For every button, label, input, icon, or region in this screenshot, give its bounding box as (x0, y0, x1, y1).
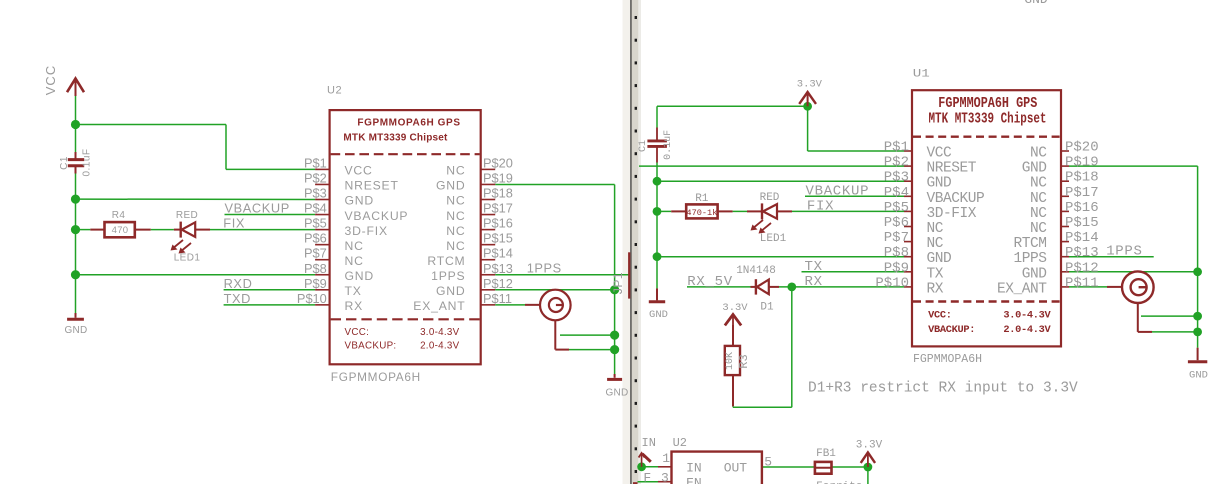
svg-text:LED1: LED1 (174, 253, 201, 264)
svg-text:P$10: P$10 (297, 291, 327, 306)
svg-text:MTK MT3339 Chipset: MTK MT3339 Chipset (343, 132, 448, 143)
svg-text:P$8: P$8 (884, 245, 909, 261)
svg-text:P$9: P$9 (304, 276, 327, 291)
svg-text:FB1: FB1 (816, 448, 836, 460)
svg-text:5: 5 (764, 454, 772, 469)
svg-text:P$9: P$9 (884, 260, 909, 276)
svg-text:GND: GND (345, 194, 374, 208)
svg-text:FGPMMOPA6H GPS: FGPMMOPA6H GPS (357, 117, 460, 128)
svg-text:0.1uF: 0.1uF (82, 148, 93, 176)
svg-text:NC: NC (927, 221, 944, 237)
svg-text:P$6: P$6 (884, 215, 909, 231)
svg-text:TX: TX (927, 266, 944, 282)
svg-text:P$14: P$14 (1065, 230, 1099, 246)
svg-text:3: 3 (661, 470, 669, 484)
svg-text:P$15: P$15 (483, 231, 513, 246)
svg-text:P$20: P$20 (1065, 140, 1099, 156)
svg-text:GND: GND (436, 284, 465, 298)
svg-text:VCC:: VCC: (345, 327, 370, 338)
svg-text:1PPS: 1PPS (527, 261, 562, 276)
svg-text:EX_ANT: EX_ANT (413, 299, 465, 313)
svg-text:GND: GND (927, 251, 952, 267)
svg-text:NC: NC (345, 254, 364, 268)
svg-text:P$16: P$16 (483, 216, 513, 231)
svg-text:LED1: LED1 (760, 233, 787, 245)
svg-text:TXD: TXD (224, 291, 251, 306)
svg-text:VBACKUP: VBACKUP (225, 201, 290, 216)
svg-text:NC: NC (446, 194, 465, 208)
svg-text:P$8: P$8 (304, 261, 327, 276)
svg-text:P$13: P$13 (1065, 245, 1099, 261)
svg-text:P$6: P$6 (304, 231, 327, 246)
svg-text:FGPMMOPA6H: FGPMMOPA6H (913, 353, 982, 366)
svg-text:GND: GND (649, 309, 668, 321)
svg-text:RX: RX (927, 281, 944, 297)
svg-text:FIX: FIX (223, 216, 245, 231)
svg-text:P$4: P$4 (304, 201, 327, 216)
svg-text:NC: NC (446, 164, 465, 178)
svg-text:RTCM: RTCM (427, 254, 465, 268)
svg-text:P$12: P$12 (1065, 260, 1099, 276)
svg-text:EN: EN (686, 476, 702, 484)
svg-text:NC: NC (446, 209, 465, 223)
svg-text:2.0-4.3V: 2.0-4.3V (1003, 324, 1051, 336)
svg-text:P$17: P$17 (483, 201, 513, 216)
svg-text:P$4: P$4 (884, 185, 909, 201)
svg-text:0.1uF: 0.1uF (663, 130, 674, 160)
svg-text:470-1k: 470-1k (686, 208, 717, 218)
svg-text:FIX: FIX (807, 198, 834, 214)
svg-text:F: F (643, 470, 651, 484)
svg-text:OUT: OUT (724, 461, 748, 476)
svg-text:P$11: P$11 (1065, 275, 1099, 291)
svg-text:NC: NC (1030, 206, 1047, 222)
svg-text:R4: R4 (112, 210, 126, 221)
svg-text:C1: C1 (59, 156, 70, 170)
svg-text:VBACKUP:: VBACKUP: (928, 324, 975, 336)
svg-text:P$1: P$1 (304, 155, 327, 170)
svg-text:1PPS: 1PPS (1106, 244, 1142, 260)
svg-text:RXD: RXD (224, 276, 253, 291)
svg-text:IN: IN (686, 461, 702, 476)
svg-text:3.0-4.3V: 3.0-4.3V (420, 327, 460, 338)
svg-text:NC: NC (446, 239, 465, 253)
svg-text:R3: R3 (737, 354, 751, 368)
svg-text:RX: RX (805, 274, 823, 290)
svg-text:RED: RED (760, 192, 780, 204)
svg-text:GND: GND (436, 179, 465, 193)
svg-text:1N4148: 1N4148 (736, 265, 776, 277)
svg-text:P$14: P$14 (483, 246, 513, 261)
svg-text:U2: U2 (673, 436, 687, 450)
svg-text:P$7: P$7 (884, 230, 909, 246)
svg-text:VBACKUP:: VBACKUP: (345, 340, 397, 351)
svg-text:VCC: VCC (927, 146, 953, 162)
svg-text:R1: R1 (695, 193, 709, 205)
svg-text:GND: GND (1022, 266, 1047, 282)
svg-text:TX: TX (345, 284, 362, 298)
svg-text:3.0-4.3V: 3.0-4.3V (1003, 309, 1051, 321)
svg-text:FGPMMOPA6H: FGPMMOPA6H (331, 370, 421, 384)
svg-text:P$19: P$19 (483, 170, 513, 185)
svg-text:P$16: P$16 (1065, 200, 1099, 216)
svg-text:P$19: P$19 (1065, 155, 1099, 171)
svg-text:JP1: JP1 (611, 272, 625, 294)
svg-text:VBACKUP: VBACKUP (345, 209, 409, 223)
svg-text:RTCM: RTCM (1013, 236, 1046, 252)
svg-text:P$3: P$3 (884, 170, 909, 186)
svg-text:NC: NC (345, 239, 364, 253)
svg-text:GND: GND (605, 388, 628, 399)
svg-text:NC: NC (1030, 221, 1047, 237)
svg-text:VCC: VCC (345, 164, 373, 178)
svg-text:1: 1 (662, 451, 670, 466)
svg-text:U2: U2 (327, 85, 342, 97)
svg-text:TX: TX (805, 259, 823, 275)
svg-text:P$13: P$13 (483, 261, 513, 276)
svg-text:U1: U1 (913, 69, 931, 81)
svg-text:GND: GND (1024, 0, 1048, 7)
svg-text:NRESET: NRESET (927, 161, 977, 177)
svg-text:3.3V: 3.3V (722, 302, 748, 314)
svg-text:P$10: P$10 (875, 275, 909, 291)
svg-text:IN: IN (642, 436, 656, 450)
svg-text:P$2: P$2 (884, 155, 909, 171)
svg-text:10K: 10K (725, 352, 736, 370)
svg-text:3D-FIX: 3D-FIX (927, 206, 977, 222)
svg-text:3.3V: 3.3V (797, 79, 823, 91)
svg-text:GND: GND (1189, 370, 1208, 382)
svg-text:GND: GND (345, 269, 374, 283)
svg-text:3D-FIX: 3D-FIX (345, 224, 388, 238)
svg-text:GND: GND (927, 176, 952, 192)
svg-text:RED: RED (176, 210, 198, 221)
svg-text:2.0-4.3V: 2.0-4.3V (420, 340, 460, 351)
svg-text:1PPS: 1PPS (1013, 251, 1046, 267)
svg-text:NC: NC (1030, 146, 1047, 162)
svg-text:VCC:: VCC: (928, 309, 952, 321)
svg-text:GND: GND (1022, 161, 1047, 177)
svg-text:P$17: P$17 (1065, 185, 1099, 201)
svg-text:GND: GND (64, 325, 87, 336)
svg-text:P$5: P$5 (304, 216, 327, 231)
svg-text:MTK MT3339 Chipset: MTK MT3339 Chipset (929, 111, 1047, 127)
svg-text:EX_ANT: EX_ANT (997, 281, 1047, 297)
svg-text:P$3: P$3 (304, 186, 327, 201)
svg-text:VBACKUP: VBACKUP (927, 191, 985, 207)
svg-text:P$18: P$18 (1065, 170, 1099, 186)
svg-text:1PPS: 1PPS (431, 269, 465, 283)
svg-text:NC: NC (1030, 191, 1047, 207)
svg-text:NC: NC (1030, 176, 1047, 192)
svg-text:3.3V: 3.3V (856, 440, 883, 452)
svg-text:P$2: P$2 (304, 170, 327, 185)
svg-text:P$7: P$7 (304, 246, 327, 261)
svg-text:NRESET: NRESET (345, 179, 399, 193)
svg-text:C1: C1 (638, 140, 649, 152)
svg-text:VBACKUP: VBACKUP (806, 183, 870, 199)
svg-text:VCC: VCC (43, 65, 58, 95)
svg-text:470: 470 (112, 225, 129, 236)
svg-text:P$5: P$5 (884, 200, 909, 216)
svg-text:P$15: P$15 (1065, 215, 1099, 231)
svg-text:RX: RX (345, 299, 364, 313)
svg-text:NC: NC (446, 224, 465, 238)
svg-text:P$20: P$20 (483, 155, 513, 170)
svg-text:RX_5V: RX_5V (687, 274, 733, 290)
svg-text:D1: D1 (760, 302, 774, 314)
svg-text:P$18: P$18 (483, 186, 513, 201)
svg-text:P$12: P$12 (483, 276, 513, 291)
svg-text:P$11: P$11 (483, 291, 512, 306)
svg-text:FGPMMOPA6H GPS: FGPMMOPA6H GPS (938, 96, 1037, 112)
svg-text:NC: NC (927, 236, 944, 252)
svg-text:P$1: P$1 (884, 140, 909, 156)
svg-text:D1+R3 restrict RX input to 3.3: D1+R3 restrict RX input to 3.3V (808, 380, 1078, 396)
